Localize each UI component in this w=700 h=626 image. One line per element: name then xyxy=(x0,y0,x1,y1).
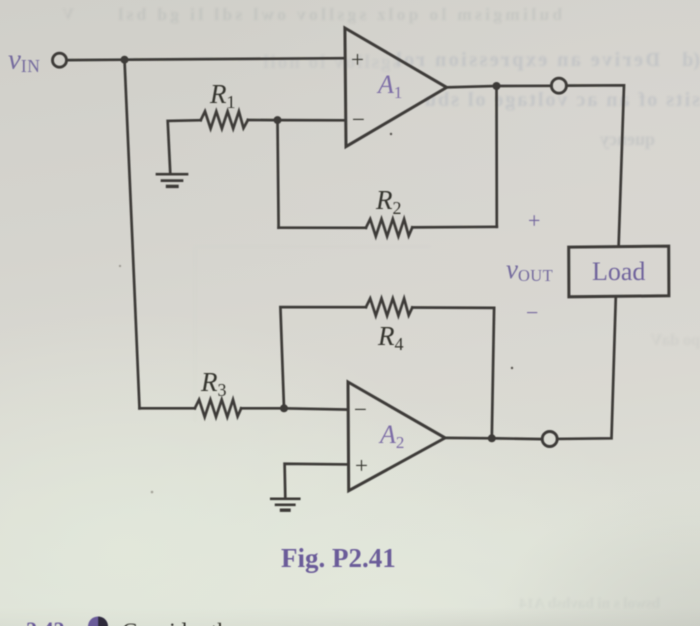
upper output terminal (open circle) xyxy=(551,78,566,93)
svg-text:Derive an expression rol: Derive an expression rol xyxy=(394,49,660,71)
stray speck (dot under A1) xyxy=(390,133,392,135)
load box xyxy=(569,246,669,297)
wire: R2 to right vertical xyxy=(412,225,497,228)
lower output terminal (open circle) xyxy=(542,432,557,447)
ground G2 (below A2 + input) xyxy=(271,497,299,500)
svg-text:bswol s ni bavhsb A14: bswol s ni bavhsb A14 xyxy=(519,596,660,612)
resistor R2 (zigzag) xyxy=(366,219,412,236)
svg-text:Consider the: Consider the xyxy=(122,619,239,626)
svg-text:+: + xyxy=(355,453,368,478)
resistor R1 (zigzag) xyxy=(201,111,248,128)
node N5: junction dot at R3 / R4 / A2 inverting input xyxy=(280,404,288,412)
wire: A2 + input to left corner xyxy=(285,464,349,499)
svg-text:quency: quency xyxy=(600,129,655,149)
wire: node N5 to op-amp A2 inverting input xyxy=(284,408,348,409)
resistor R3 (zigzag) xyxy=(195,400,241,417)
wire: upper terminal to top-right corner and down to Load xyxy=(566,85,624,246)
wire: Load bottom down to lower-right corner xyxy=(557,297,616,439)
node N4: A2 output junction dot xyxy=(488,434,496,442)
wire: R2 row left segment xyxy=(279,226,366,229)
svg-text:R2: R2 xyxy=(375,185,402,218)
circuit artwork xyxy=(53,28,669,510)
stray speck (dot bottom left) xyxy=(151,491,154,494)
svg-text:vOUT: vOUT xyxy=(506,254,553,285)
wire: R1 ground-side lead and corner xyxy=(168,120,201,174)
svg-text:vIN: vIN xyxy=(8,44,40,77)
node N2: junction dot at A1 inverting input xyxy=(274,116,282,124)
wire: A1 output to node N3 xyxy=(447,86,497,87)
resistor R4 (zigzag) xyxy=(366,299,412,316)
op-amp A2 (triangle) xyxy=(348,382,445,491)
svg-text:−: − xyxy=(352,107,365,132)
ground G1 (below R1 left lead) xyxy=(157,173,187,176)
wire: node N2 down to R2 row xyxy=(278,120,279,228)
svg-text:R3: R3 xyxy=(200,367,227,400)
wire: node N2 to op-amp A1 - input xyxy=(278,119,345,122)
input terminal vIN (open circle) xyxy=(53,53,67,67)
svg-text:(d: (d xyxy=(682,49,700,71)
op-amp A1 (triangle) xyxy=(345,28,447,147)
wire: node N1 to op-amp A1 + input xyxy=(125,58,345,60)
wire: R4 left lead and corner down to node N5 xyxy=(280,307,366,408)
svg-text:−: − xyxy=(526,300,538,325)
svg-text:−: − xyxy=(354,397,367,422)
wire: R3 to node N5 xyxy=(241,407,284,410)
wire: R3 row left segment xyxy=(140,407,195,410)
svg-text:Fig. P2.41: Fig. P2.41 xyxy=(281,543,396,573)
svg-text:R4: R4 xyxy=(377,321,404,354)
wire: right vertical up to output node N3 xyxy=(495,86,498,227)
svg-text:A2: A2 xyxy=(378,420,404,452)
wire: R4 row right segment xyxy=(412,306,494,309)
node N1: input junction dot xyxy=(121,56,129,64)
svg-text:R1: R1 xyxy=(209,79,236,112)
node N3: A1 output junction dot xyxy=(493,82,501,90)
wire: R1 to node N2 xyxy=(248,119,278,122)
stray speck (dot below R4 right) xyxy=(511,367,513,369)
wire: node N4 to A2 output apex xyxy=(445,437,492,440)
svg-text:po daV: po daV xyxy=(650,332,700,349)
wire: left vertical from node N1 down to R3 row xyxy=(125,60,140,409)
wire: lower terminal to node N4 xyxy=(492,437,542,441)
svg-text:+: + xyxy=(528,208,540,233)
wire: input terminal to node N1 xyxy=(67,58,125,61)
svg-text:A1: A1 xyxy=(376,70,402,102)
svg-text:2.42: 2.42 xyxy=(26,617,65,626)
svg-text:V: V xyxy=(62,6,74,23)
wire: node N3 to upper output terminal xyxy=(497,84,552,87)
stray speck (dot left area) xyxy=(119,265,121,267)
wire: node N4 up to R4 row xyxy=(492,308,494,438)
svg-text:bulimgism lo qolz sgsllov owl: bulimgism lo qolz sgsllov owl sdl li gd … xyxy=(115,5,562,24)
svg-text:Load: Load xyxy=(592,257,645,286)
svg-text:+: + xyxy=(351,47,364,72)
